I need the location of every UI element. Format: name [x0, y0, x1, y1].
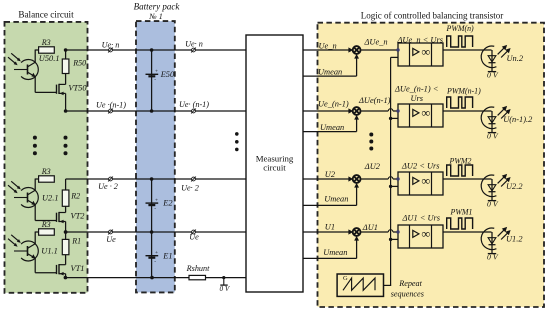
LED opto U2.2 — [481, 175, 496, 197]
svg-text:-: - — [154, 258, 156, 264]
svg-text:Ue ·(n-1): Ue ·(n-1) — [96, 101, 126, 110]
wire generator out — [384, 284, 392, 286]
svg-text:R1: R1 — [71, 237, 81, 246]
svg-text:Urs: Urs — [411, 94, 424, 103]
svg-text:U2.1: U2.1 — [42, 193, 59, 202]
resistor R3 (U50.1 cell) — [39, 47, 55, 53]
svg-text:Ue· n: Ue· n — [185, 39, 203, 48]
svg-text:Umean: Umean — [318, 68, 342, 77]
svg-text:Repeat: Repeat — [398, 279, 422, 288]
resistor R3 (U2.1 cell) — [39, 176, 55, 182]
svg-text:+: + — [155, 69, 158, 75]
svg-text:ΔUe(n-1): ΔUe(n-1) — [358, 96, 391, 105]
svg-text:circuit: circuit — [263, 163, 286, 173]
svg-text:0 V: 0 V — [487, 199, 499, 208]
resistor R50 — [62, 59, 69, 74]
svg-text:0 V: 0 V — [487, 131, 499, 140]
LED opto U1.2 — [481, 228, 496, 250]
svg-text:R2: R2 — [70, 191, 80, 200]
light arrows U(n-1).2 — [498, 108, 505, 115]
junction rail U1.1 — [64, 230, 68, 234]
junction chain row 2 — [150, 177, 154, 181]
svg-text:-: - — [154, 77, 156, 83]
wire PWM out U1 — [443, 231, 492, 233]
node Ue*2 left — [109, 177, 113, 181]
svg-text:ΔUe_n: ΔUe_n — [364, 38, 388, 47]
svg-text:PWM1: PWM1 — [450, 208, 473, 217]
svg-text:E1: E1 — [162, 252, 172, 261]
wire delta Ue_(n-1) — [361, 110, 389, 112]
wire rail Ue*2 — [66, 178, 246, 180]
LED opto Un.2 — [481, 46, 496, 68]
light arrows U1.2 — [498, 229, 505, 236]
wire battery chain top — [151, 50, 153, 111]
svg-text:VT50: VT50 — [68, 84, 87, 93]
node Ue*n right — [192, 48, 196, 52]
battery E2 — [151, 200, 153, 202]
wire signal U2 — [303, 178, 349, 180]
node Ue*2 right — [192, 177, 196, 181]
comparator Ue_(n-1) — [398, 104, 443, 127]
wire rail Ue*(n-1) — [66, 110, 246, 112]
wire PWM out Ue_n — [443, 49, 492, 51]
svg-text:U1: U1 — [325, 223, 335, 232]
summing junction Ue_(n-1) — [353, 107, 361, 115]
svg-text:ΔU2: ΔU2 — [364, 162, 380, 171]
LED opto U(n-1).2 — [481, 107, 496, 129]
wire rail to R50 — [65, 50, 67, 59]
summing junction Ue_n — [353, 46, 361, 54]
wire delta U2 — [361, 178, 389, 180]
svg-text:ΔU2 < Urs: ΔU2 < Urs — [401, 161, 440, 170]
battery pack box — [136, 21, 175, 292]
comparator Ue_n — [398, 43, 443, 66]
junction chain row 1 — [150, 230, 154, 234]
battery E50 — [151, 71, 153, 73]
wire collector U2.1 — [35, 178, 38, 180]
wire Umean U1 — [303, 257, 357, 259]
svg-text:∞: ∞ — [421, 106, 430, 120]
wire PWM out U2 — [443, 178, 492, 180]
ground 0V bottom — [222, 276, 225, 279]
svg-text:-: - — [154, 206, 156, 212]
svg-text:ΔUe_n < Urs: ΔUe_n < Urs — [397, 35, 443, 44]
svg-text:Balance circuit: Balance circuit — [18, 9, 74, 19]
svg-text:U(n-1).2: U(n-1).2 — [503, 115, 532, 124]
svg-text:Un.2: Un.2 — [507, 54, 524, 63]
junction rail U50.1 — [64, 48, 68, 52]
junction rail U2.1 — [64, 230, 68, 234]
wire sawtooth bus — [390, 57, 392, 285]
svg-text:Umean: Umean — [323, 248, 347, 257]
light arrows Un.2 — [498, 47, 505, 54]
svg-text:Ue: Ue — [106, 235, 116, 244]
svg-text:sequences: sequences — [391, 290, 424, 299]
resistor R1 — [62, 239, 69, 254]
svg-text:E50: E50 — [160, 70, 175, 79]
svg-text:∞: ∞ — [421, 227, 430, 241]
transistor VT1 — [65, 255, 67, 265]
node Ue left — [109, 230, 113, 234]
light arrows U2.1 — [11, 181, 19, 187]
node Ue right — [192, 230, 196, 234]
wire signal U1 — [303, 231, 349, 233]
ellipsis dots before measuring — [235, 132, 239, 136]
junction chain row n-1 — [150, 109, 154, 113]
comparator U2 — [398, 172, 443, 195]
svg-text:U1.1: U1.1 — [41, 246, 58, 255]
svg-text:Ue: Ue — [189, 233, 199, 242]
svg-text:Ue· n: Ue· n — [102, 40, 120, 49]
transistor VT2 — [65, 206, 67, 212]
resistor R2 — [62, 190, 69, 206]
svg-text:Ue_n: Ue_n — [319, 41, 337, 50]
wire rail Ue*n — [66, 49, 246, 51]
wire delta Ue_n — [361, 49, 399, 51]
svg-text:U1.2: U1.2 — [506, 235, 523, 244]
node Ue*(n-1) left — [109, 109, 113, 113]
svg-text:R3: R3 — [41, 220, 51, 229]
wire ramp tap Ue_(n-1) — [391, 117, 398, 119]
svg-text:PWM(n-1): PWM(n-1) — [446, 86, 481, 95]
comparator U1 — [398, 225, 443, 248]
node Ue*n left — [109, 48, 113, 52]
wire emitter to gate U50.1 — [34, 77, 36, 93]
svg-text:Battery pack: Battery pack — [134, 1, 181, 11]
svg-text:ΔU1 < Urs: ΔU1 < Urs — [402, 214, 441, 223]
wire Umean Ue_(n-1) — [303, 131, 357, 133]
svg-text:Umean: Umean — [320, 123, 344, 132]
wire rail to R2 — [65, 179, 67, 190]
node Ue*(n-1) right — [192, 109, 196, 113]
wire signal Ue_(n-1) — [303, 110, 349, 112]
svg-text:U50.1: U50.1 — [39, 54, 60, 63]
ellipsis dots balance box — [33, 136, 37, 140]
svg-text:∞: ∞ — [421, 45, 430, 59]
svg-text:Rshunt: Rshunt — [186, 264, 210, 273]
svg-text:R3: R3 — [41, 38, 51, 47]
wire ramp tap Ue_n — [391, 56, 398, 58]
svg-text:Ue · 2: Ue · 2 — [98, 182, 118, 191]
svg-text:ΔUe_(n-1) <: ΔUe_(n-1) < — [394, 84, 438, 93]
wire emitter to gate U2.1 — [34, 205, 36, 221]
summing junction U1 — [353, 228, 361, 236]
light arrows U2.2 — [498, 176, 505, 183]
svg-text:U2.2: U2.2 — [506, 182, 523, 191]
svg-text:0 V: 0 V — [220, 285, 231, 293]
logic box — [318, 23, 545, 307]
opto-transistor U1.1 — [21, 241, 38, 261]
svg-text:VT1: VT1 — [71, 264, 85, 273]
wire bottom rail — [65, 277, 189, 279]
svg-text:U2: U2 — [325, 170, 335, 179]
wire ramp tap U2 — [391, 185, 398, 187]
wire rail to R1 — [65, 232, 67, 239]
svg-text:+: + — [155, 198, 158, 204]
svg-text:Ue_(n-1): Ue_(n-1) — [318, 100, 349, 109]
junction chain bottom — [150, 276, 154, 280]
svg-text:VT2: VT2 — [71, 212, 85, 221]
opto-transistor U2.1 — [21, 188, 38, 208]
svg-text:+: + — [155, 250, 158, 256]
opto-transistor U50.1 — [21, 60, 38, 80]
wire delta U1 — [361, 231, 389, 233]
wire collector U50.1 — [35, 49, 38, 51]
light arrows U50.1 — [11, 53, 19, 59]
svg-text:PWM(n): PWM(n) — [446, 24, 475, 33]
battery E1 — [151, 253, 153, 255]
svg-text:№ 1: № 1 — [148, 12, 163, 21]
svg-text:E2: E2 — [162, 199, 172, 208]
junction chain row n — [150, 48, 154, 52]
wire signal Ue_n — [303, 49, 349, 51]
svg-text:Ue· (n-1): Ue· (n-1) — [179, 100, 209, 109]
summing junction U2 — [353, 175, 361, 183]
svg-text:G: G — [343, 275, 348, 282]
svg-text:0 V: 0 V — [487, 70, 499, 79]
svg-text:R3: R3 — [41, 167, 51, 176]
wire emitter to gate U1.1 — [34, 258, 36, 273]
svg-text:R50: R50 — [72, 59, 86, 68]
wire ramp tap U1 — [391, 238, 398, 240]
light arrows U1.1 — [11, 235, 19, 241]
wire battery chain bottom — [151, 179, 153, 278]
balance circuit box — [5, 22, 88, 293]
transistor VT50 — [65, 74, 67, 85]
svg-text:Umean: Umean — [324, 195, 348, 204]
wire rail Ue — [66, 231, 246, 233]
wire Umean Ue_n — [303, 75, 357, 77]
svg-text:∞: ∞ — [421, 174, 430, 188]
generator G sawtooth — [337, 274, 383, 296]
resistor R3 (U1.1 cell) — [39, 229, 55, 235]
ellipsis dots logic box — [369, 133, 373, 137]
svg-text:Ue· 2: Ue· 2 — [181, 184, 199, 193]
wire PWM out Ue_(n-1) — [443, 110, 492, 112]
svg-text:Logic of controlled balancing: Logic of controlled balancing transistor — [361, 11, 503, 21]
measuring circuit U-M — [246, 35, 303, 292]
svg-text:0 V: 0 V — [487, 252, 499, 261]
resistor Rshunt — [189, 275, 206, 279]
wire Umean U2 — [303, 204, 357, 206]
svg-text:ΔU1: ΔU1 — [362, 223, 378, 232]
wire collector U1.1 — [35, 231, 38, 233]
